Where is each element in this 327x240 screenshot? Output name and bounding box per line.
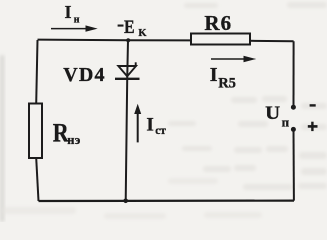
svg-text:R5: R5 — [218, 76, 236, 92]
resistor Rнэ — [29, 104, 42, 159]
terminal Uп bottom dot — [291, 127, 296, 132]
zener diode VD4 — [115, 62, 140, 79]
label Uп — [265, 104, 289, 129]
svg-text:I: I — [65, 2, 72, 22]
wire bottom — [39, 200, 295, 203]
label Iст — [146, 114, 166, 136]
wire left vertical upper — [36, 40, 37, 104]
wire R6-to-right corner — [250, 40, 294, 43]
wire top-left horizontal — [38, 39, 129, 42]
svg-text:I: I — [146, 114, 153, 135]
label Iн — [65, 2, 80, 26]
label IR5 — [210, 64, 236, 91]
wire right vertical lower — [293, 130, 295, 201]
svg-text:E: E — [124, 17, 135, 38]
svg-text:I: I — [210, 64, 218, 86]
junction bottom middle — [123, 199, 128, 204]
terminal Uп top dot — [291, 105, 296, 110]
svg-text:K: K — [138, 28, 147, 39]
svg-text:R6: R6 — [204, 11, 232, 35]
svg-text:н: н — [74, 15, 80, 26]
label - polarity — [310, 104, 316, 106]
label Rнэ — [53, 118, 81, 148]
svg-text:ст: ст — [155, 125, 166, 137]
svg-text:U: U — [265, 104, 280, 124]
current arrow Iст — [134, 104, 141, 143]
svg-text:VD4: VD4 — [63, 64, 105, 86]
label + polarity — [308, 122, 318, 131]
current arrow Iн — [51, 25, 98, 31]
label -EK — [118, 17, 148, 39]
resistor R6 — [191, 34, 250, 45]
wire left vertical lower — [36, 158, 38, 201]
svg-text:п: п — [282, 114, 290, 129]
wire right vertical upper — [293, 41, 295, 106]
svg-text:нэ: нэ — [67, 133, 81, 147]
wire middle vertical — [126, 40, 128, 201]
node -EK junction dot — [126, 38, 130, 42]
wire top middle-to-R6 — [128, 39, 191, 41]
current arrow IR5 — [211, 56, 256, 63]
